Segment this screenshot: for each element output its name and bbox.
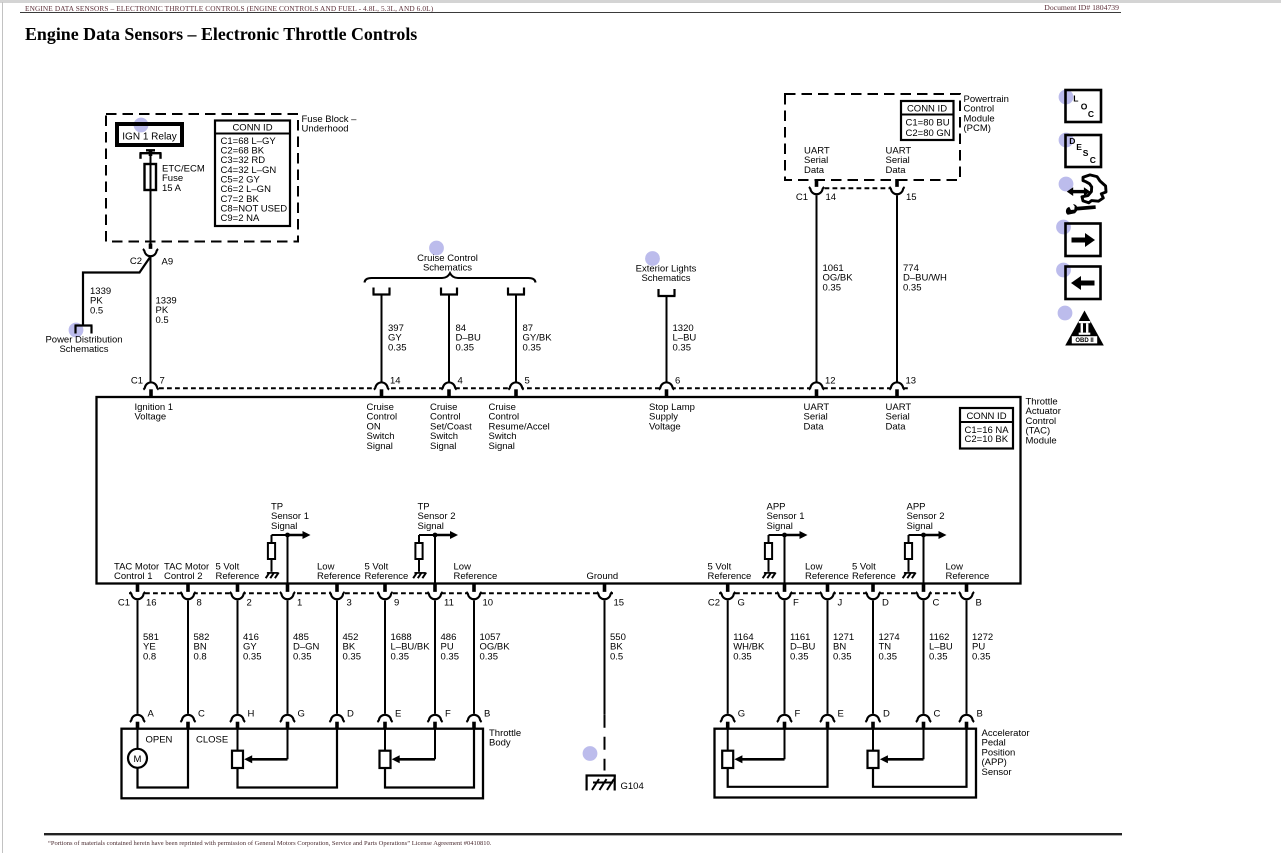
pin 1 on TAC module bottom — [280, 584, 302, 609]
icon: OBD II — [1065, 311, 1104, 346]
wire 1274 to APP sensor — [872, 600, 874, 714]
svg-text:0.35: 0.35 — [480, 651, 499, 662]
svg-text:F: F — [445, 709, 451, 720]
label: wire 416 — [243, 632, 262, 662]
pin G on throttle body — [280, 709, 305, 729]
svg-text:E: E — [1076, 142, 1082, 152]
label: wire 581 — [143, 632, 159, 662]
svg-text:M: M — [134, 754, 142, 765]
icon: schematic navigation (arrows and wrench) — [1066, 175, 1106, 215]
label: wire 1320 L-BU 0.35 — [673, 323, 697, 353]
label: Power Distribution Schematics — [45, 335, 122, 356]
svg-text:0.35: 0.35 — [823, 282, 842, 293]
svg-text:C1=80 BU: C1=80 BU — [906, 118, 950, 129]
svg-text:Voltage: Voltage — [649, 421, 681, 432]
svg-text:0.35: 0.35 — [293, 651, 312, 662]
svg-text:C2=80 GN: C2=80 GN — [906, 128, 951, 139]
pin 14 on TAC module — [374, 376, 401, 398]
label: wire 87 — [523, 323, 553, 353]
svg-text:C2: C2 — [708, 598, 720, 609]
label: Ground (pin 15) — [587, 571, 619, 582]
svg-text:8: 8 — [197, 598, 202, 609]
page top bar — [0, 0, 1281, 3]
pin 11 on TAC module bottom — [427, 584, 453, 609]
svg-text:Reference: Reference — [216, 571, 260, 582]
svg-text:4: 4 — [458, 376, 463, 387]
svg-text:0.5: 0.5 — [610, 651, 623, 662]
label: wire 550 BK 0.5 — [610, 632, 626, 662]
header rule — [20, 12, 1121, 13]
wire/arrow: APP Sensor 1 Signal junction — [769, 531, 808, 539]
TAC C1 bottom connector dashed line — [129, 592, 613, 594]
pin 6 on TAC module — [659, 376, 680, 398]
wire 550 BK to G104 — [604, 600, 606, 770]
throttle body box — [122, 729, 484, 799]
pin C2-G on TAC module bottom — [708, 584, 745, 609]
svg-text:Reference: Reference — [317, 571, 361, 582]
svg-text:Data: Data — [886, 421, 907, 432]
svg-text:B: B — [484, 709, 490, 720]
svg-text:Reference: Reference — [454, 571, 498, 582]
svg-text:C1: C1 — [118, 598, 130, 609]
svg-text:Data: Data — [804, 165, 825, 176]
ground: APP Sensor 2 Signal — [903, 573, 916, 579]
label: 5 Volt Reference (pin 9) — [365, 562, 409, 582]
off-page connector: cruise Set/Coast — [440, 288, 458, 295]
off-page connector: power distribution — [75, 326, 93, 334]
svg-text:0.35: 0.35 — [456, 342, 475, 353]
svg-text:D: D — [883, 709, 890, 720]
pin C on TAC module bottom — [916, 584, 940, 609]
pin 10 on TAC module bottom — [466, 584, 493, 609]
fuse F: ETC/ECM 15A — [145, 156, 157, 190]
label: wire 774 D-BU/WH 0.35 — [903, 263, 947, 293]
wire 485 to throttle body — [287, 600, 289, 714]
pin 4 on TAC module — [441, 376, 462, 398]
svg-text:Control 2: Control 2 — [164, 571, 203, 582]
pin 15 on PCM — [889, 179, 916, 203]
label: Low Reference (pin 3) — [317, 562, 361, 582]
label: Cruise Control Resume/Accel Switch Signal — [489, 402, 550, 452]
wire/arrow: APP Sensor 2 Signal junction — [909, 531, 947, 539]
label: wire 397 — [388, 323, 407, 353]
hyperlink dot: power distribution schematics — [69, 323, 84, 338]
resistor: APP Sensor 2 Signal — [905, 535, 912, 572]
svg-text:IGN 1 Relay: IGN 1 Relay — [122, 131, 176, 142]
label: wire 582 — [194, 632, 210, 662]
ground: TP Sensor 2 Signal — [413, 573, 426, 579]
svg-text:14: 14 — [826, 192, 837, 203]
label: wire 1274 — [879, 632, 900, 662]
label: Low Reference (pin 10) — [454, 562, 498, 582]
label: wire 486 — [441, 632, 460, 662]
ground: APP Sensor 1 Signal — [763, 573, 776, 579]
svg-text:D: D — [882, 598, 889, 609]
pin E on throttle body — [377, 709, 401, 729]
wire 1688 to throttle body — [384, 600, 386, 714]
wiper arrow TP2 (from pin F) — [392, 729, 435, 764]
svg-text:0.35: 0.35 — [972, 651, 991, 662]
svg-text:Reference: Reference — [946, 571, 990, 582]
wire 1161 to APP sensor — [784, 600, 786, 714]
wire 581 to throttle body — [137, 600, 139, 714]
svg-text:CONN ID: CONN ID — [966, 411, 1006, 422]
label: wire 1271 — [833, 632, 854, 662]
svg-text:1: 1 — [297, 598, 302, 609]
svg-text:6: 6 — [675, 376, 680, 387]
page left edge line — [2, 2, 3, 853]
label: wire 1057 — [480, 632, 511, 662]
pin C on APP sensor — [916, 709, 941, 729]
wiper arrow APP2 (from pin C) — [880, 729, 924, 764]
svg-text:Signal: Signal — [271, 521, 297, 532]
footer rule — [44, 833, 1122, 836]
resistor: APP Sensor 1 Signal — [765, 535, 772, 572]
pin 2 on TAC module bottom — [230, 584, 252, 609]
svg-text:0.5: 0.5 — [90, 305, 103, 316]
svg-text:7: 7 — [160, 376, 165, 387]
svg-text:11: 11 — [444, 598, 454, 609]
svg-text:C: C — [1088, 109, 1094, 119]
svg-text:Signal: Signal — [907, 521, 933, 532]
label: wire 84 — [456, 323, 481, 353]
wire 1271 to APP sensor — [827, 600, 829, 714]
pin A on throttle body — [130, 709, 155, 729]
label: UART Serial Data TAC-13 — [886, 402, 912, 432]
ground G104 symbol — [586, 776, 616, 791]
svg-text:J: J — [838, 598, 843, 609]
wire 486 to throttle body — [434, 600, 436, 714]
svg-text:0.35: 0.35 — [673, 342, 692, 353]
label: TAC Motor Control 1 — [114, 562, 159, 582]
wire 774 D-BU/WH — [896, 195, 898, 382]
svg-text:0.35: 0.35 — [441, 651, 460, 662]
connector C2/A9 inline — [130, 244, 173, 268]
label: UART Serial Data TAC-12 — [804, 402, 830, 432]
svg-text:16: 16 — [146, 598, 157, 609]
wire 1272 to APP sensor — [966, 600, 968, 714]
pin D on throttle body — [329, 709, 354, 729]
label: UART Serial Data PCM-14 — [804, 146, 830, 176]
label: Cruise Control ON Switch Signal — [367, 402, 398, 452]
svg-text:H: H — [248, 709, 255, 720]
label: Low Reference (pin J) — [805, 562, 849, 582]
hyperlink dot: LOC icon — [1059, 90, 1074, 105]
svg-text:14: 14 — [390, 376, 401, 387]
footer text — [48, 840, 491, 847]
resistor: TP Sensor 2 Signal — [415, 535, 422, 572]
svg-text:15 A: 15 A — [162, 183, 182, 194]
svg-text:0.35: 0.35 — [391, 651, 410, 662]
svg-text:Schematics: Schematics — [59, 344, 108, 355]
label: Fuse Block - Underhood — [302, 114, 358, 135]
svg-text:Control 1: Control 1 — [114, 571, 153, 582]
label: wire 1161 — [790, 632, 815, 662]
wire: TP Sensor 2 Signal to pin — [434, 535, 436, 584]
fuse block - underhood dashed enclosure — [106, 114, 298, 242]
hyperlink dot: cruise control schematics — [429, 241, 444, 256]
hyperlink dot: schematic icon — [1059, 177, 1074, 192]
label: Stop Lamp Supply Voltage — [649, 402, 695, 432]
svg-text:9: 9 — [394, 598, 399, 609]
svg-text:A: A — [148, 709, 155, 720]
hyperlink dot: ground G104 — [583, 746, 598, 761]
header right — [1044, 3, 1119, 12]
svg-text:15: 15 — [614, 598, 625, 609]
pin G on APP sensor — [720, 709, 745, 729]
svg-text:Reference: Reference — [852, 571, 896, 582]
wire 1061 OG/BK — [816, 195, 818, 382]
svg-text:C1: C1 — [131, 376, 143, 387]
svg-text:Module: Module — [1026, 435, 1057, 446]
label: wire 1164 — [733, 632, 765, 662]
svg-text:C2=10 BK: C2=10 BK — [965, 434, 1009, 445]
svg-text:G104: G104 — [621, 781, 644, 792]
svg-text:Reference: Reference — [365, 571, 409, 582]
pin J on TAC module bottom — [820, 584, 843, 609]
label: TP Sensor 1 Signal — [271, 502, 309, 532]
label: 5 Volt Reference (pin G) — [708, 562, 752, 582]
relay IGN 1 Relay label box — [117, 124, 182, 145]
svg-text:0.35: 0.35 — [929, 651, 948, 662]
label: TP Sensor 2 Signal — [418, 502, 456, 532]
pin E on APP sensor — [820, 709, 844, 729]
svg-text:Sensor: Sensor — [982, 767, 1012, 778]
svg-text:0.8: 0.8 — [143, 651, 156, 662]
connector table: fuse block CONN ID — [215, 121, 290, 227]
pin 16 on TAC module bottom — [118, 584, 157, 609]
connector table: TAC CONN ID — [960, 408, 1013, 449]
label: Accelerator Pedal Position (APP) Sensor — [982, 728, 1030, 778]
label: wire 1688 — [391, 632, 431, 662]
label: TAC Motor Control 2 — [164, 562, 209, 582]
pin 8 on TAC module bottom — [180, 584, 201, 609]
svg-text:Signal: Signal — [489, 441, 515, 452]
label: OPEN — [146, 735, 173, 746]
svg-text:0.35: 0.35 — [903, 282, 922, 293]
wire 1162 to APP sensor — [923, 600, 925, 714]
svg-text:Reference: Reference — [708, 571, 752, 582]
pin 13 on TAC module — [889, 376, 916, 398]
svg-text:C: C — [934, 709, 941, 720]
motor M throttle body — [128, 729, 188, 788]
icon: DESC — [1066, 135, 1102, 167]
ground: TP Sensor 1 Signal — [266, 573, 279, 579]
wire: fuse to connector C2 — [150, 190, 152, 244]
svg-text:Schematics: Schematics — [423, 263, 472, 274]
svg-text:Signal: Signal — [767, 521, 793, 532]
label: 5 Volt Reference (pin 2) — [216, 562, 260, 582]
page title — [25, 24, 417, 45]
svg-text:Signal: Signal — [418, 521, 444, 532]
svg-text:CONN ID: CONN ID — [232, 123, 272, 134]
label: Low Reference (pin B) — [946, 562, 990, 582]
connector table: PCM CONN ID — [901, 101, 954, 140]
svg-text:13: 13 — [906, 376, 917, 387]
svg-text:15: 15 — [906, 192, 917, 203]
wire 1164 to APP sensor — [727, 600, 729, 714]
label: Ignition 1 Voltage — [135, 402, 174, 423]
hyperlink dot: back icon — [1056, 263, 1071, 278]
svg-text:0.35: 0.35 — [343, 651, 362, 662]
pin B on throttle body — [466, 709, 490, 729]
wire/arrow: TP Sensor 2 Signal junction — [419, 531, 458, 539]
svg-text:0.8: 0.8 — [194, 651, 207, 662]
svg-text:C: C — [198, 709, 205, 720]
svg-text:OPEN: OPEN — [146, 735, 173, 746]
icon: LOC — [1066, 90, 1102, 122]
wire 84 cruise Set/Coast — [448, 295, 450, 383]
wire 416 to throttle body — [237, 600, 239, 714]
TAC C1 top connector dashed line — [151, 387, 908, 389]
pin D on APP sensor — [865, 709, 890, 729]
svg-text:Ground: Ground — [587, 571, 619, 582]
svg-text:F: F — [793, 598, 799, 609]
wire 397 cruise ON — [381, 295, 383, 383]
TAC C2 bottom connector dashed line — [719, 592, 975, 594]
svg-text:0.35: 0.35 — [243, 651, 262, 662]
svg-text:0.35: 0.35 — [733, 651, 752, 662]
wire/arrow: TP Sensor 1 Signal junction — [272, 531, 311, 539]
label: Cruise Control Set/Coast Switch Signal — [430, 402, 472, 452]
svg-text:0.35: 0.35 — [790, 651, 809, 662]
icon: back arrow — [1066, 267, 1101, 300]
svg-text:3: 3 — [347, 598, 352, 609]
brace: cruise control group — [365, 273, 536, 282]
pin F on throttle body — [427, 709, 451, 729]
svg-text:F: F — [795, 709, 801, 720]
off-page connector: cruise ON — [373, 288, 391, 295]
svg-text:L: L — [1073, 94, 1078, 104]
pin F on APP sensor — [777, 709, 801, 729]
pin B on TAC module bottom — [959, 584, 982, 609]
label: wire 1162 — [929, 632, 953, 662]
svg-text:B: B — [976, 598, 982, 609]
PCM C1 connector dashed line — [817, 187, 898, 189]
pin 3 on TAC module bottom — [329, 584, 351, 609]
svg-text:Voltage: Voltage — [135, 412, 167, 423]
hyperlink dot: OBD II icon — [1058, 306, 1073, 321]
resistor: TP Sensor 1 Signal — [268, 535, 275, 572]
svg-text:0.5: 0.5 — [156, 315, 169, 326]
svg-text:E: E — [838, 709, 844, 720]
svg-text:(PCM): (PCM) — [964, 123, 991, 134]
svg-text:0.35: 0.35 — [833, 651, 852, 662]
TAC module box — [97, 397, 1021, 584]
hyperlink dot: IGN 1 relay — [134, 118, 149, 133]
wire: branch to power distribution schematics — [83, 257, 151, 326]
pin 5 on TAC module — [508, 376, 529, 398]
label: CLOSE — [196, 735, 228, 746]
hyperlink dot: exterior lights schematics — [645, 251, 660, 266]
label: wire 1061 OG/BK 0.35 — [823, 263, 854, 293]
svg-text:S: S — [1083, 148, 1089, 158]
svg-text:Signal: Signal — [430, 441, 456, 452]
hyperlink dot: forward icon — [1056, 220, 1071, 235]
label: G104 — [621, 781, 644, 792]
wire 452 to throttle body — [336, 600, 338, 714]
potentiometer APP2 in APP sensor — [868, 729, 967, 787]
wire 582 to throttle body — [187, 600, 189, 714]
svg-text:O: O — [1081, 102, 1088, 112]
svg-text:CONN ID: CONN ID — [907, 104, 947, 115]
pin F on TAC module bottom — [777, 584, 799, 609]
potentiometer TP1 in throttle body — [232, 729, 337, 788]
svg-text:OBD II: OBD II — [1075, 338, 1094, 344]
off-page connector: cruise Resume/Accel — [507, 288, 525, 295]
svg-text:Data: Data — [886, 165, 907, 176]
svg-text:0.35: 0.35 — [879, 651, 898, 662]
wire: APP Sensor 1 Signal to pin — [784, 535, 786, 584]
svg-text:C2: C2 — [130, 256, 142, 267]
label: 5 Volt Reference (pin D) — [852, 562, 896, 582]
pin C on throttle body — [180, 709, 205, 729]
label: UART Serial Data PCM-15 — [886, 146, 912, 176]
pin C1-7 on TAC module — [131, 376, 165, 398]
svg-text:D: D — [347, 709, 354, 720]
pin D on TAC module bottom — [865, 584, 889, 609]
wire: APP Sensor 2 Signal to pin — [923, 535, 925, 584]
svg-text:Reference: Reference — [805, 571, 849, 582]
pin C1-14 on PCM — [796, 179, 836, 203]
svg-text:C9=2 NA: C9=2 NA — [221, 213, 260, 224]
svg-text:Data: Data — [804, 421, 825, 432]
off-page connector: exterior lights — [658, 289, 676, 296]
svg-text:2: 2 — [247, 598, 252, 609]
svg-text:Body: Body — [489, 738, 511, 749]
svg-text:E: E — [395, 709, 401, 720]
pin 9 on TAC module bottom — [377, 584, 399, 609]
wire: 1339 PK to TAC pin C1-7 — [150, 257, 152, 382]
pin 15 on TAC module bottom — [597, 584, 624, 609]
label: Powertrain Control Module (PCM) — [964, 94, 1009, 134]
pin H on throttle body — [230, 709, 255, 729]
hyperlink dot: DESC icon — [1059, 133, 1074, 148]
label: wire 452 — [343, 632, 362, 662]
svg-text:G: G — [298, 709, 305, 720]
label: wire 1339 PK 0.5 right — [156, 296, 177, 326]
svg-text:G: G — [738, 709, 745, 720]
svg-text:G: G — [738, 598, 745, 609]
wire 1320 exterior lights — [666, 296, 668, 382]
svg-text:10: 10 — [483, 598, 494, 609]
wiper arrow APP1 (from pin F) — [734, 729, 784, 764]
label: wire 1272 — [972, 632, 993, 662]
wire: TP Sensor 1 Signal to pin — [287, 535, 289, 584]
relay contact symbol — [140, 150, 162, 159]
potentiometer APP1 in APP sensor — [722, 729, 827, 787]
label: Throttle Body — [489, 728, 521, 749]
header left — [25, 4, 433, 13]
svg-text:12: 12 — [825, 376, 836, 387]
svg-text:B: B — [977, 709, 983, 720]
label: APP Sensor 2 Signal — [907, 502, 945, 532]
svg-text:C: C — [933, 598, 940, 609]
svg-text:Underhood: Underhood — [302, 124, 349, 135]
icon: forward arrow — [1066, 224, 1101, 257]
svg-text:A9: A9 — [162, 257, 174, 268]
label: ETC/ECM Fuse 15 A — [162, 164, 205, 194]
svg-text:Signal: Signal — [367, 441, 393, 452]
label: APP Sensor 1 Signal — [767, 502, 805, 532]
svg-text:CLOSE: CLOSE — [196, 735, 228, 746]
wiper arrow TP1 (from pin G) — [244, 729, 287, 764]
pin 12 on TAC module — [809, 376, 836, 398]
label: Throttle Actuator Control (TAC) Module — [1026, 397, 1061, 447]
label: wire 1339 PK 0.5 left — [90, 286, 111, 316]
svg-text:Schematics: Schematics — [641, 273, 690, 284]
APP sensor box — [715, 729, 977, 798]
